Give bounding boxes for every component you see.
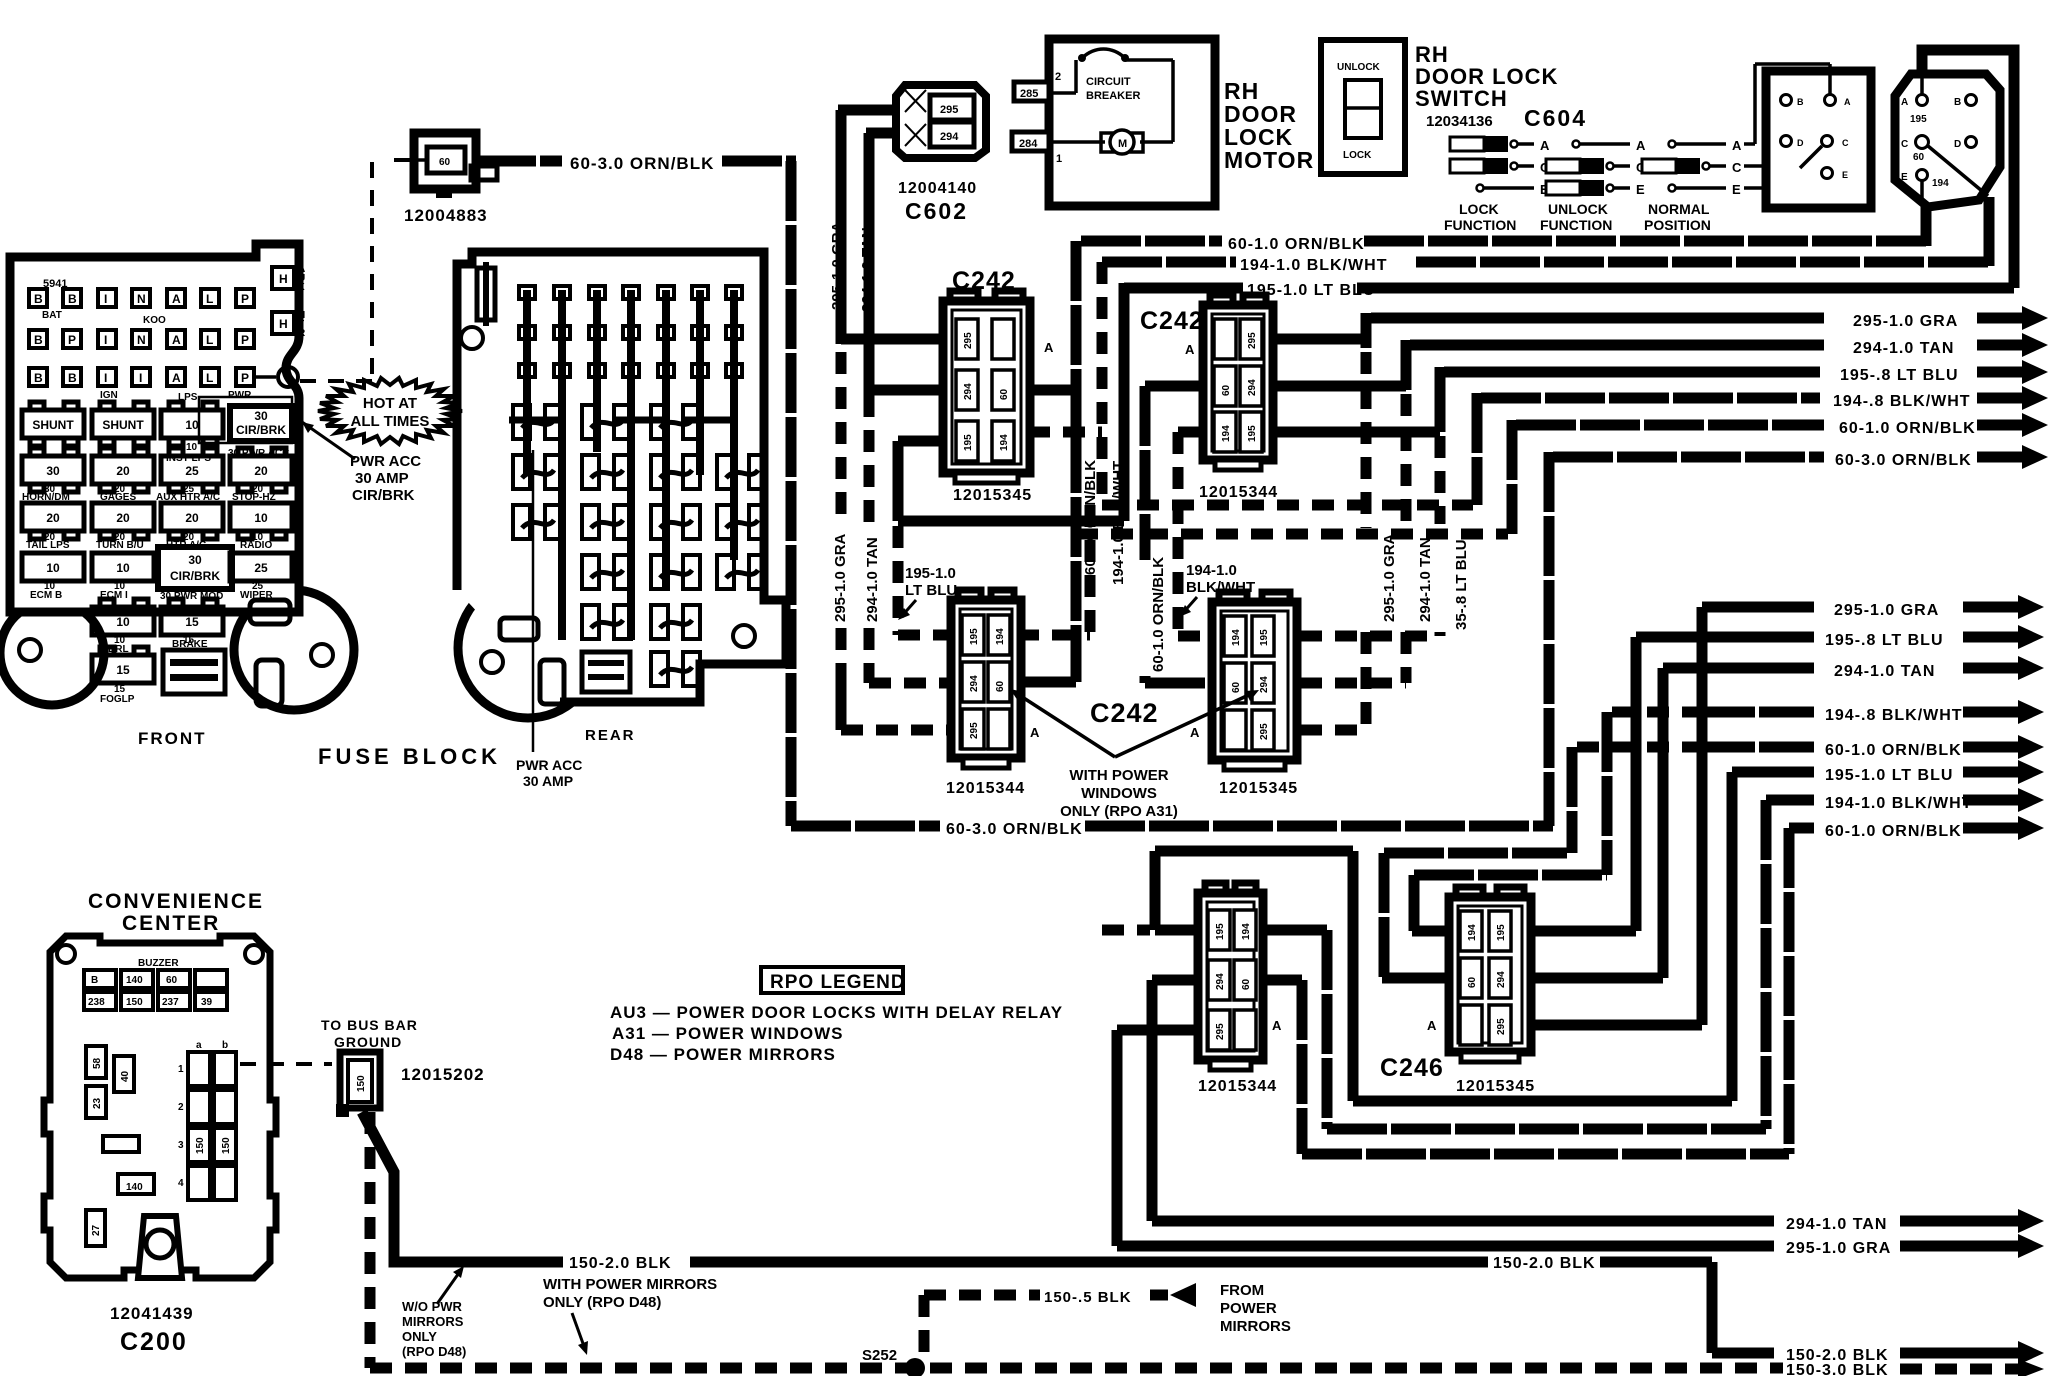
wire 60 hatched from C242b row2 to C242d row2 — [1145, 386, 1215, 683]
connector C602 12004140 — [896, 85, 986, 158]
front block fuse grid — [29, 264, 306, 443]
svg-text:294: 294 — [1215, 973, 1226, 990]
svg-text:B: B — [68, 371, 77, 385]
svg-text:ONLY: ONLY — [402, 1329, 437, 1344]
svg-text:LT BLU: LT BLU — [905, 582, 957, 599]
svg-text:15: 15 — [185, 615, 199, 629]
label RH DOOR LOCK MOTOR — [1224, 78, 1314, 173]
svg-text:39: 39 — [201, 997, 213, 1008]
wire C242b row2 294 to TAN riser — [1270, 381, 1406, 392]
RH door lock switch — [1321, 40, 1405, 174]
svg-text:A: A — [1190, 725, 1200, 740]
svg-text:20: 20 — [46, 511, 60, 525]
svg-text:294: 294 — [1247, 379, 1258, 396]
svg-text:195-.8 LT BLU: 195-.8 LT BLU — [1825, 632, 1944, 649]
svg-text:23: 23 — [92, 1097, 103, 1109]
label WITH POWER WINDOWS ONLY — [1060, 767, 1178, 820]
svg-text:C602: C602 — [905, 198, 968, 224]
svg-text:C: C — [1901, 139, 1908, 150]
svg-text:295-1.0 GRA: 295-1.0 GRA — [829, 221, 846, 310]
svg-text:GROUND: GROUND — [334, 1034, 402, 1050]
svg-text:C604: C604 — [1524, 105, 1587, 131]
svg-text:B: B — [68, 292, 77, 306]
svg-text:A: A — [172, 292, 181, 306]
svg-text:194: 194 — [1932, 178, 1949, 189]
wire 294-1.0 TAN lower row — [1534, 656, 2044, 978]
label 194-1.0 BLK/WHT pointer — [1179, 562, 1255, 617]
svg-text:E: E — [1732, 182, 1741, 197]
svg-text:195-.8 LT BLU: 195-.8 LT BLU — [1840, 367, 1959, 384]
svg-text:CONVENIENCE: CONVENIENCE — [88, 890, 264, 913]
svg-text:4: 4 — [178, 1178, 184, 1189]
svg-text:UNLOCK: UNLOCK — [1548, 201, 1608, 217]
svg-text:CIR/BRK: CIR/BRK — [236, 423, 286, 437]
svg-text:E: E — [1842, 170, 1848, 180]
svg-text:194: 194 — [995, 628, 1006, 645]
svg-text:D: D — [1954, 139, 1961, 150]
svg-text:H: H — [279, 272, 288, 286]
label 195-1.0 LT BLU pointer — [898, 565, 957, 620]
svg-text:L: L — [206, 333, 213, 347]
svg-text:60-3.0 ORN/BLK: 60-3.0 ORN/BLK — [1835, 452, 1972, 469]
wire 194 dashed vertical from C242a row3 — [1028, 262, 1102, 505]
fuse block REAR — [457, 252, 786, 718]
svg-text:30 PWR MOD: 30 PWR MOD — [160, 591, 223, 602]
svg-text:12015345: 12015345 — [1219, 780, 1298, 797]
svg-text:A: A — [1636, 138, 1646, 153]
svg-text:P: P — [241, 371, 249, 385]
svg-text:C246: C246 — [1380, 1054, 1444, 1082]
svg-text:150: 150 — [221, 1137, 232, 1154]
svg-text:12041439: 12041439 — [110, 1304, 194, 1323]
svg-text:60-1.0 ORN/BLK: 60-1.0 ORN/BLK — [1825, 823, 1962, 840]
wire 60-1.0 ORN/BLK S-path row — [1382, 735, 2044, 978]
svg-text:194: 194 — [1241, 923, 1252, 940]
svg-text:12015202: 12015202 — [401, 1065, 485, 1084]
wire 194 dashed from C242b row3 to C242d row1 — [1178, 432, 1215, 636]
normal position symbol group — [1642, 138, 1742, 233]
svg-text:40: 40 — [120, 1070, 131, 1082]
RPO legend entries — [610, 1003, 1063, 1064]
svg-text:IGN: IGN — [100, 390, 118, 401]
svg-text:A31 — POWER WINDOWS: A31 — POWER WINDOWS — [612, 1024, 844, 1043]
svg-text:12015344: 12015344 — [1198, 1078, 1277, 1095]
svg-text:60: 60 — [1221, 384, 1232, 396]
svg-text:I: I — [104, 292, 107, 306]
svg-text:BAT: BAT — [42, 310, 62, 321]
svg-text:SWITCH: SWITCH — [1415, 86, 1508, 111]
svg-text:ECM B: ECM B — [30, 590, 62, 601]
wire 295-1.0 GRA bottom row — [1117, 1030, 2044, 1258]
wires normal position to connector face — [1744, 64, 1830, 188]
connector C246 a 12015344 — [1198, 883, 1263, 1070]
svg-text:294: 294 — [1259, 676, 1270, 693]
svg-text:194: 194 — [1231, 629, 1242, 646]
wire 194-.8 BLK/WHT row with arrow — [1477, 386, 2048, 505]
wire 195-1.0 LT BLU wrap row — [1155, 760, 2044, 1101]
with power windows pointer arrows — [1010, 689, 1259, 757]
wire octagon pin A wrap to 195 row — [1922, 50, 2014, 288]
wire 294-1.0 TAN bottom row — [1152, 980, 2044, 1233]
wire 195 dashed riser down to C242d row1 — [1300, 436, 1440, 636]
svg-text:295: 295 — [940, 104, 958, 116]
svg-text:237: 237 — [162, 997, 179, 1008]
svg-text:I: I — [104, 371, 107, 385]
svg-text:60: 60 — [995, 680, 1006, 692]
svg-text:295-1.0 GRA: 295-1.0 GRA — [832, 533, 849, 622]
svg-text:B: B — [91, 975, 98, 986]
svg-text:2: 2 — [1055, 71, 1061, 83]
svg-text:10: 10 — [186, 442, 198, 453]
terminal 285 — [1014, 71, 1061, 101]
svg-text:b: b — [222, 1040, 228, 1051]
motor M — [1101, 133, 1113, 152]
pointer PWR ACC 30 AMP CIR/BRK — [302, 422, 421, 504]
svg-text:MIRRORS: MIRRORS — [402, 1314, 464, 1329]
square connector face C604 — [1766, 71, 1871, 208]
terminal 284 — [1012, 132, 1062, 165]
svg-text:60-3.0 ORN/BLK: 60-3.0 ORN/BLK — [946, 821, 1083, 838]
svg-text:195: 195 — [963, 434, 974, 451]
svg-text:295-1.0 GRA: 295-1.0 GRA — [1381, 533, 1398, 622]
connector C242 b 12015344 — [1203, 295, 1273, 470]
rear block bus bars — [527, 290, 734, 640]
wire 294-1.0 TAN row with arrow — [1406, 333, 2048, 390]
svg-text:CIR/BRK: CIR/BRK — [352, 487, 415, 504]
svg-text:30 PWR ACC: 30 PWR ACC — [228, 448, 289, 459]
wire 60 dashed run to right riser — [1076, 529, 1508, 540]
svg-text:C242: C242 — [952, 267, 1016, 295]
svg-text:60: 60 — [1231, 681, 1242, 693]
svg-text:C200: C200 — [120, 1328, 188, 1356]
svg-text:12015345: 12015345 — [953, 487, 1032, 504]
svg-text:FUNCTION: FUNCTION — [1540, 217, 1612, 233]
svg-text:195: 195 — [1247, 425, 1258, 442]
wire 150-.5 BLK branch — [924, 1283, 1196, 1363]
svg-text:30: 30 — [188, 553, 202, 567]
svg-text:P: P — [241, 333, 249, 347]
svg-text:58: 58 — [92, 1057, 103, 1069]
connector C242 d 12015345 — [1212, 592, 1297, 770]
svg-text:FROM: FROM — [1220, 1282, 1264, 1299]
svg-text:284: 284 — [1019, 138, 1038, 150]
svg-text:WIPER: WIPER — [240, 590, 274, 601]
wire 295 dashed riser down to C242d row3 — [1300, 352, 1366, 730]
svg-text:INST LPS: INST LPS — [166, 453, 211, 464]
svg-text:HORN/DM: HORN/DM — [22, 492, 70, 503]
svg-text:FOGLP: FOGLP — [100, 694, 135, 705]
svg-text:L: L — [206, 371, 213, 385]
wire dashed to ground connector — [240, 1062, 332, 1066]
svg-text:B: B — [34, 292, 43, 306]
svg-text:294-1.0 TAN: 294-1.0 TAN — [859, 227, 876, 312]
svg-text:10: 10 — [185, 418, 199, 432]
svg-text:60-1.0 ORN/BLK: 60-1.0 ORN/BLK — [1150, 557, 1167, 672]
svg-text:295: 295 — [1247, 332, 1258, 349]
svg-text:25: 25 — [254, 561, 268, 575]
svg-text:10: 10 — [254, 511, 268, 525]
svg-text:295: 295 — [969, 722, 980, 739]
wire 60-3.0 ORN/BLK bottom horizontal — [791, 821, 1553, 832]
svg-text:150: 150 — [356, 1075, 367, 1092]
svg-text:C: C — [1732, 160, 1742, 175]
svg-text:NORMAL: NORMAL — [1648, 201, 1710, 217]
svg-text:12004883: 12004883 — [404, 206, 488, 225]
svg-text:HOT AT: HOT AT — [363, 395, 417, 412]
svg-text:B: B — [1954, 97, 1961, 108]
svg-text:WINDOWS: WINDOWS — [1081, 785, 1157, 802]
octagon connector face — [1895, 74, 2000, 207]
svg-text:10: 10 — [46, 561, 60, 575]
svg-text:B: B — [34, 371, 43, 385]
svg-text:295-1.0 GRA: 295-1.0 GRA — [1853, 313, 1958, 330]
svg-text:AUX HTR A/C: AUX HTR A/C — [156, 492, 220, 503]
starburst HOT AT ALL TIMES — [318, 378, 462, 444]
wire 294 stub from C602 — [866, 128, 896, 139]
pointer PWR ACC 30 AMP — [532, 450, 535, 752]
svg-text:UNLOCK: UNLOCK — [1337, 62, 1381, 73]
svg-text:12015344: 12015344 — [1199, 484, 1278, 501]
labels A — [1030, 340, 1437, 1033]
lock function symbol group — [1444, 136, 1550, 233]
svg-text:I: I — [104, 333, 107, 347]
svg-text:25: 25 — [185, 464, 199, 478]
wire 195-.8 LT BLU row with arrow — [1440, 360, 2048, 432]
svg-text:294: 294 — [969, 675, 980, 692]
svg-text:195: 195 — [969, 628, 980, 645]
svg-text:A: A — [172, 371, 181, 385]
svg-text:LOCK: LOCK — [1459, 201, 1499, 217]
svg-text:DRL: DRL — [108, 644, 129, 655]
label WITH POWER MIRRORS ONLY — [543, 1276, 717, 1355]
svg-text:195: 195 — [1496, 924, 1507, 941]
svg-text:RPO LEGEND: RPO LEGEND — [770, 972, 906, 993]
RH door lock motor box — [1049, 39, 1215, 206]
label W/O PWR MIRRORS ONLY — [402, 1266, 466, 1359]
svg-text:TO BUS BAR: TO BUS BAR — [321, 1017, 418, 1033]
connector C246 b 12015345 — [1449, 887, 1531, 1062]
svg-text:194-1.0 BLK/WHT: 194-1.0 BLK/WHT — [1110, 461, 1127, 585]
svg-text:BUZZER: BUZZER — [138, 958, 179, 969]
svg-text:294: 294 — [1496, 971, 1507, 988]
part number labels — [946, 484, 1535, 1095]
wire 194 dashed run to right riser — [1102, 500, 1473, 511]
svg-text:294-1.0 TAN: 294-1.0 TAN — [864, 537, 881, 622]
svg-text:A: A — [1030, 725, 1040, 740]
svg-text:10: 10 — [116, 561, 130, 575]
wire C242c row2 dashed from TAN line — [869, 678, 955, 689]
svg-text:150: 150 — [195, 1137, 206, 1154]
svg-text:60: 60 — [1241, 978, 1252, 990]
svg-text:SHUNT: SHUNT — [32, 418, 74, 432]
svg-text:194-1.0 BLK/WHT: 194-1.0 BLK/WHT — [1240, 257, 1387, 274]
svg-text:12004140: 12004140 — [898, 180, 977, 197]
svg-text:3: 3 — [178, 1140, 184, 1151]
svg-text:30: 30 — [254, 409, 268, 423]
svg-text:C242: C242 — [1140, 307, 1204, 335]
svg-text:ONLY (RPO D48): ONLY (RPO D48) — [543, 1294, 661, 1311]
svg-text:A: A — [1844, 97, 1851, 107]
svg-text:295: 295 — [1259, 723, 1270, 740]
wire ground dashed main — [370, 1112, 2044, 1376]
svg-text:20: 20 — [116, 464, 130, 478]
wire 195 dashed down to C242c — [898, 526, 955, 635]
svg-text:294: 294 — [963, 383, 974, 400]
svg-text:MOTOR: MOTOR — [1224, 147, 1314, 173]
svg-text:1: 1 — [178, 1064, 184, 1075]
wire octagon 194 exit to BLK/WHT row — [1984, 197, 1995, 266]
svg-text:194: 194 — [999, 434, 1010, 451]
wire C242c row3 dashed from GRA line — [841, 683, 955, 730]
svg-text:60-3.0 ORN/BLK: 60-3.0 ORN/BLK — [570, 154, 714, 173]
svg-text:194: 194 — [1221, 425, 1232, 442]
junction S252 — [905, 1358, 925, 1376]
svg-text:60: 60 — [439, 157, 451, 168]
svg-text:10: 10 — [116, 615, 130, 629]
svg-text:TAIL LPS: TAIL LPS — [26, 540, 70, 551]
svg-text:60: 60 — [999, 388, 1010, 400]
wire 194-.8 BLK/WHT S-path row — [1412, 700, 2044, 931]
svg-text:195: 195 — [1910, 114, 1927, 125]
svg-text:RADIO: RADIO — [240, 540, 272, 551]
svg-text:H: H — [279, 317, 288, 331]
wire 295 stub from C602 — [838, 105, 896, 116]
svg-text:A: A — [1272, 1018, 1282, 1033]
svg-text:294-1.0 TAN: 294-1.0 TAN — [1853, 340, 1954, 357]
connector ground 12015202 — [336, 1052, 380, 1117]
svg-text:60: 60 — [166, 975, 178, 986]
wire 60-1.0 ORN/BLK wrap row — [1260, 816, 2044, 1154]
wire C242b row3 195 to LT BLU riser — [1270, 427, 1440, 438]
svg-text:150-.5 BLK: 150-.5 BLK — [1044, 1289, 1132, 1306]
svg-text:D48 — POWER MIRRORS: D48 — POWER MIRRORS — [610, 1045, 836, 1064]
svg-text:CIRCUIT: CIRCUIT — [1086, 76, 1131, 88]
svg-text:POWER: POWER — [1220, 1300, 1277, 1317]
svg-text:35-.8 LT BLU: 35-.8 LT BLU — [1453, 539, 1470, 630]
svg-text:194: 194 — [1467, 924, 1478, 941]
svg-text:SHUNT: SHUNT — [102, 418, 144, 432]
svg-text:195: 195 — [1259, 629, 1270, 646]
connector C100 12004883 — [414, 133, 497, 198]
wire 194 dashed riser from C242c row1 — [1017, 505, 1090, 635]
wire 60-3.0 ORN/BLK row with arrow — [1549, 445, 2048, 826]
wire 60-1.0 ORN/BLK hatched vertical — [1024, 241, 1076, 682]
svg-text:194-1.0: 194-1.0 — [1186, 562, 1237, 579]
svg-text:N: N — [137, 333, 146, 347]
wire 295-1.0 GRA vertical — [841, 110, 957, 728]
svg-text:194-.8 BLK/WHT: 194-.8 BLK/WHT — [1833, 393, 1971, 410]
svg-text:12015345: 12015345 — [1456, 1078, 1535, 1095]
svg-text:ECM I: ECM I — [100, 590, 128, 601]
svg-text:CIR/BRK: CIR/BRK — [170, 569, 220, 583]
svg-text:PWR ACC: PWR ACC — [350, 453, 421, 470]
svg-text:POSITION: POSITION — [1644, 217, 1711, 233]
svg-text:195: 195 — [1215, 923, 1226, 940]
svg-text:30 AMP: 30 AMP — [523, 773, 573, 789]
svg-text:60-1.0 ORN/BLK: 60-1.0 ORN/BLK — [1228, 236, 1365, 253]
svg-text:294-1.0 TAN: 294-1.0 TAN — [1786, 1216, 1887, 1233]
svg-text:295: 295 — [963, 332, 974, 349]
svg-text:STOP-HZ: STOP-HZ — [232, 492, 276, 503]
svg-text:B: B — [1797, 97, 1804, 107]
svg-text:FUSE BLOCK: FUSE BLOCK — [318, 744, 501, 769]
svg-text:150-3.0 BLK: 150-3.0 BLK — [1786, 1362, 1889, 1376]
wire 60-3.0 vertical next to rear fuse block — [786, 161, 797, 826]
svg-text:ONLY (RPO A31): ONLY (RPO A31) — [1060, 803, 1178, 820]
svg-text:20: 20 — [254, 464, 268, 478]
svg-text:150: 150 — [126, 997, 143, 1008]
svg-text:C242: C242 — [1090, 698, 1159, 728]
svg-text:150-2.0 BLK: 150-2.0 BLK — [569, 1255, 672, 1272]
wire 60-1.0 ORN/BLK row2 with arrow — [1512, 413, 2048, 534]
wire 294 dashed riser down to C242d row2 — [1300, 394, 1406, 683]
svg-text:2: 2 — [178, 1102, 184, 1113]
svg-text:195-1.0: 195-1.0 — [905, 565, 956, 582]
svg-text:15: 15 — [116, 663, 130, 677]
unlock function symbol group — [1540, 138, 1646, 233]
svg-text:PWR: PWR — [228, 390, 252, 401]
wire 295-1.0 GRA lower row — [1534, 595, 2044, 1025]
svg-text:TURN B/U: TURN B/U — [96, 540, 144, 551]
svg-text:N: N — [137, 292, 146, 306]
svg-text:FRONT: FRONT — [138, 729, 207, 748]
svg-text:A: A — [1540, 138, 1550, 153]
svg-text:(RPO D48): (RPO D48) — [402, 1344, 466, 1359]
svg-text:294-1.0 TAN: 294-1.0 TAN — [1834, 663, 1935, 680]
svg-text:HTR A/C: HTR A/C — [166, 540, 206, 551]
svg-text:A: A — [1044, 340, 1054, 355]
svg-text:BRAKE: BRAKE — [172, 639, 208, 650]
svg-text:CENTER: CENTER — [122, 912, 220, 935]
svg-text:295: 295 — [1215, 1023, 1226, 1040]
wire 194-1.0 BLK/WHT row — [1102, 257, 1989, 268]
svg-text:D: D — [1797, 138, 1804, 148]
svg-text:20: 20 — [116, 511, 130, 525]
svg-text:A: A — [1901, 97, 1908, 108]
svg-text:A: A — [1185, 342, 1195, 357]
wire 60-3.0 ORN/BLK top — [476, 156, 796, 167]
svg-text:I: I — [139, 371, 142, 385]
svg-text:295-1.0 GRA: 295-1.0 GRA — [1786, 1240, 1891, 1257]
svg-text:12034136: 12034136 — [1426, 113, 1493, 130]
wire 295-1.0 GRA row with arrow — [1366, 306, 2048, 343]
svg-text:C: C — [1842, 138, 1849, 148]
svg-text:KOO: KOO — [143, 315, 166, 326]
svg-text:W/O PWR: W/O PWR — [402, 1299, 463, 1314]
wire 150-2.0 BLK from ground connector — [362, 1112, 2044, 1365]
connector C242 c 12015344 — [951, 590, 1021, 768]
svg-text:E: E — [1636, 182, 1645, 197]
svg-text:60-1.0 ORN/BLK: 60-1.0 ORN/BLK — [1825, 742, 1962, 759]
fuse block FRONT — [0, 244, 354, 710]
svg-text:E: E — [1901, 172, 1908, 183]
svg-text:285: 285 — [1020, 88, 1038, 100]
svg-text:140: 140 — [126, 1182, 143, 1193]
svg-text:294-1.0 TAN: 294-1.0 TAN — [1417, 537, 1434, 622]
svg-text:A: A — [172, 333, 181, 347]
svg-text:295: 295 — [1496, 1018, 1507, 1035]
svg-text:REAR: REAR — [585, 727, 636, 744]
svg-text:150-2.0 BLK: 150-2.0 BLK — [1493, 1255, 1596, 1272]
svg-text:P: P — [68, 333, 76, 347]
svg-text:194-.8 BLK/WHT: 194-.8 BLK/WHT — [1825, 707, 1963, 724]
wire dashed stub into C246a row1 — [1102, 925, 1150, 936]
RPO legend box — [761, 967, 906, 993]
svg-text:20: 20 — [185, 511, 199, 525]
wire 195-.8 LT BLU lower row — [1534, 625, 2044, 931]
svg-text:A: A — [1732, 138, 1742, 153]
svg-text:30 AMP: 30 AMP — [355, 470, 409, 487]
